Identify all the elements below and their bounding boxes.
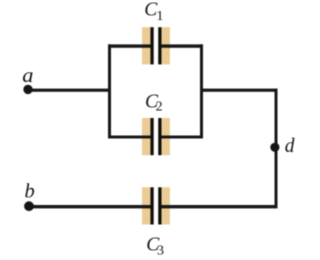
svg-text:b: b <box>25 181 35 203</box>
svg-text:d: d <box>285 136 295 157</box>
svg-text:a: a <box>22 63 33 87</box>
svg-text:2: 2 <box>156 100 163 115</box>
svg-text:3: 3 <box>157 243 164 258</box>
svg-text:1: 1 <box>156 9 163 24</box>
